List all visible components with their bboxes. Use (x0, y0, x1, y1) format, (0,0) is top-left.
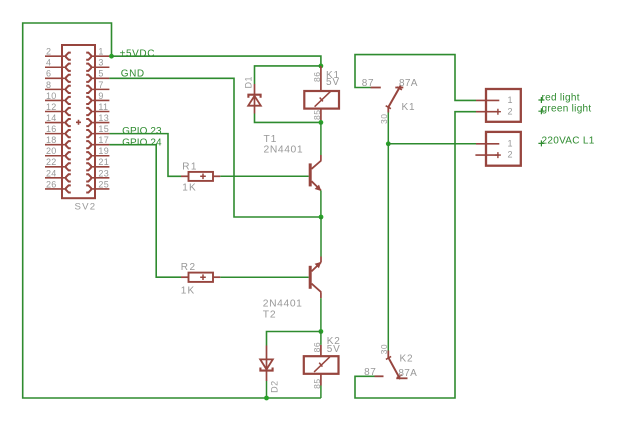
relay coil K2 diagonal (314, 357, 330, 372)
resistor R2 right pin (213, 276, 220, 278)
connector SV2 pin 4 (45, 66, 66, 68)
wire GPIO 24 (109, 145, 181, 278)
node +5VDC pin1 junction (109, 54, 114, 59)
relay coil K2 bottom pin 85 (320, 374, 322, 386)
svg-text:23: 23 (98, 168, 109, 178)
connector SV2 pin 26 (45, 188, 66, 190)
transistor T1 collector pin (320, 155, 322, 161)
svg-text:2: 2 (508, 150, 513, 160)
transistor T1 emitter diagonal (312, 181, 321, 190)
svg-text:3: 3 (98, 58, 103, 68)
svg-text:5: 5 (98, 69, 103, 79)
svg-text:2: 2 (46, 47, 51, 57)
svg-text:16: 16 (46, 124, 57, 134)
svg-text:D2: D2 (269, 380, 279, 393)
transistor T2 emitter pin (320, 257, 322, 263)
transistor T1 base bar (309, 163, 312, 186)
svg-text:30: 30 (379, 344, 389, 354)
svg-text:1: 1 (508, 95, 513, 105)
svg-text:GND: GND (121, 68, 145, 79)
wire 87 of K2 to green light route (355, 112, 476, 398)
connector X2 pin 2 (475, 154, 499, 156)
svg-text:24: 24 (46, 168, 57, 178)
relay coil K2 body (304, 356, 339, 374)
svg-text:18: 18 (46, 135, 57, 145)
switch K2 contact 87 stub (375, 375, 384, 377)
wire D1 branch top (255, 66, 321, 84)
wire GPIO 23 (109, 134, 181, 177)
svg-text:T1: T1 (264, 134, 278, 145)
svg-text:86: 86 (312, 72, 322, 82)
switch K1 lever (388, 86, 400, 108)
svg-text:17: 17 (98, 135, 109, 145)
svg-text:220VAC L1: 220VAC L1 (542, 136, 595, 147)
wire T1 emitter down (320, 190, 322, 217)
svg-text:1: 1 (508, 138, 513, 148)
svg-text:4: 4 (46, 58, 51, 68)
connector SV2 pin 10 (45, 99, 66, 101)
connector X2 pin 1 (476, 143, 499, 145)
svg-text:11: 11 (98, 102, 108, 112)
svg-text:14: 14 (46, 113, 57, 123)
connector SV2 pin 3 (91, 66, 110, 68)
connector SV2 pin 22 (45, 166, 66, 168)
relay coil K1 diagonal (315, 92, 331, 107)
svg-text:85: 85 (312, 110, 322, 120)
connector X1 red/green light body (486, 89, 521, 122)
switch K2 common 30 pin (387, 351, 389, 359)
svg-text:8: 8 (46, 80, 51, 90)
connector SV2 pin 5 (91, 77, 110, 79)
wire +5VDC rail (112, 56, 321, 66)
diode D1 triangle (248, 96, 261, 106)
svg-text:7: 7 (98, 80, 103, 90)
connector SV2 pin 2 (45, 55, 66, 57)
svg-text:86: 86 (312, 342, 322, 352)
connector SV2 pin 9 (91, 99, 110, 101)
transistor T1 emitter arrow (315, 185, 322, 191)
transistor T2 base bar (309, 266, 312, 289)
node 30 junction (386, 141, 391, 146)
connector X1 pin 2 (476, 111, 499, 113)
svg-text:5V: 5V (327, 344, 341, 355)
wire emitter junction to T2 emitter (320, 217, 322, 257)
svg-text:D1: D1 (244, 76, 254, 89)
svg-text:87: 87 (362, 78, 374, 89)
label 220VAC L1 (538, 140, 544, 146)
diode D1 bottom pin (254, 95, 256, 114)
transistor T1 collector diagonal (312, 161, 322, 169)
svg-text:SV2: SV2 (75, 201, 97, 212)
svg-text:6: 6 (46, 69, 51, 79)
connector SV2 body (62, 45, 95, 198)
switch K1 contact 87 stub (371, 87, 381, 89)
node emitter junction (319, 215, 324, 220)
wire R1 to T1 base (220, 175, 308, 177)
wire D2 bottom (266, 381, 268, 398)
node K1 coil top junction (319, 64, 324, 69)
connector SV2 pin 1 (91, 55, 110, 57)
switch K1 common 30 pin (387, 107, 389, 112)
wire 87 of K1 to red light route (355, 55, 476, 101)
svg-text:1K: 1K (182, 182, 197, 193)
svg-text:85: 85 (312, 378, 322, 388)
svg-text:2N4401: 2N4401 (263, 299, 303, 310)
resistor R1 left pin (181, 175, 189, 177)
svg-text:K2: K2 (400, 354, 414, 365)
svg-text:25: 25 (98, 179, 109, 189)
wire D2 branch (267, 332, 321, 346)
connector SV2 pin 16 (45, 133, 66, 135)
connector SV2 pin 25 (91, 188, 110, 190)
svg-text:+5VDC: +5VDC (120, 49, 156, 60)
wire R2 to T2 base (220, 276, 308, 278)
switch K2 contact 87A stub (396, 377, 407, 379)
svg-text:87A: 87A (399, 78, 418, 89)
svg-text:22: 22 (46, 157, 57, 167)
svg-text:15: 15 (98, 124, 109, 134)
connector SV2 pin 19 (91, 155, 110, 157)
resistor R1 right pin (213, 175, 220, 177)
svg-text:red light: red light (542, 92, 580, 103)
wire 30 junction to 220VAC pin1 (388, 143, 476, 145)
transistor T2 emitter arrow (315, 262, 322, 268)
svg-text:13: 13 (98, 113, 109, 123)
resistor R2 body (189, 273, 214, 282)
node K1 coil bottom junction (319, 120, 324, 125)
switch K1 contact 87A stub (395, 87, 403, 89)
connector SV2 pin 17 (91, 144, 110, 146)
svg-text:GPIO 23: GPIO 23 (122, 126, 162, 137)
relay coil K1 top pin 86 (320, 66, 322, 91)
diode D2 bottom pin (266, 359, 268, 381)
connector SV2 pin 12 (45, 111, 66, 113)
connector SV2 pin 24 (45, 177, 66, 179)
label red light (538, 97, 544, 103)
connector SV2 pin 7 (91, 88, 110, 90)
svg-text:19: 19 (98, 146, 109, 156)
wire K1 30 down to junction (387, 113, 389, 144)
label green light (538, 108, 544, 114)
connector SV2 pin 13 (91, 122, 110, 124)
transistor T2 emitter diagonal (312, 262, 321, 271)
wire T2 collector down (320, 298, 322, 331)
transistor T2 collector diagonal (312, 284, 322, 293)
connector SV2 origin cross (76, 120, 81, 125)
svg-text:9: 9 (98, 91, 103, 101)
svg-text:26: 26 (46, 179, 57, 189)
diode D2 top pin (266, 346, 268, 360)
connector X1 pin 1 (476, 99, 499, 101)
svg-text:K1: K1 (402, 102, 416, 113)
diode D1 top pin (254, 84, 256, 95)
svg-text:2: 2 (508, 106, 513, 116)
connector SV2 pin 21 (91, 166, 110, 168)
connector SV2 pin 8 (45, 88, 66, 90)
wire +5VDC loop left border (23, 23, 321, 398)
svg-text:87A: 87A (398, 368, 417, 379)
wire 30 junction down to K2 (387, 144, 389, 351)
diode D2 cathode bar (260, 368, 272, 371)
wire K2 coil bottom to rail (320, 386, 322, 399)
svg-text:12: 12 (46, 102, 57, 112)
connector SV2 pin 14 (45, 122, 66, 124)
connector SV2 pin 15 (91, 133, 110, 135)
svg-text:1K: 1K (181, 286, 196, 297)
node D2 bottom rail junction (264, 396, 269, 401)
relay coil K1 bottom pin 85 (320, 109, 322, 121)
svg-text:2N4401: 2N4401 (264, 145, 304, 156)
relay coil K2 top pin 86 (320, 345, 322, 356)
diode D2 triangle (260, 359, 273, 369)
resistor R1 body (189, 172, 214, 181)
wire D1 bottom branch (255, 114, 321, 123)
resistor R2 left pin (181, 276, 189, 278)
svg-text:30: 30 (379, 114, 389, 124)
svg-text:10: 10 (46, 91, 57, 101)
connector SV2 pin 23 (91, 177, 110, 179)
resistor R2 origin cross (200, 274, 206, 280)
svg-text:R1: R1 (182, 161, 198, 172)
resistor R1 origin cross (200, 174, 206, 180)
svg-text:GPIO 24: GPIO 24 (122, 137, 162, 148)
connector SV2 pin 20 (45, 155, 66, 157)
svg-text:20: 20 (46, 146, 57, 156)
svg-text:5V: 5V (326, 77, 340, 88)
switch K2 lever (389, 358, 401, 379)
svg-text:R2: R2 (181, 262, 197, 273)
transistor T2 collector pin (320, 292, 322, 298)
wire K1 coil to T1 collector (320, 122, 322, 155)
node K2 coil top junction (319, 329, 324, 334)
connector X2 220VAC body (486, 132, 521, 166)
diode D1 cathode bar (248, 95, 260, 98)
wire GND (109, 78, 321, 217)
svg-text:green light: green light (542, 103, 592, 114)
svg-text:1: 1 (98, 47, 103, 57)
connector SV2 pin 18 (45, 144, 66, 146)
svg-text:21: 21 (98, 157, 109, 167)
svg-text:T2: T2 (263, 310, 277, 321)
connector SV2 pin 6 (45, 77, 66, 79)
relay coil K1 body (304, 91, 339, 109)
connector SV2 pin 11 (91, 111, 110, 113)
